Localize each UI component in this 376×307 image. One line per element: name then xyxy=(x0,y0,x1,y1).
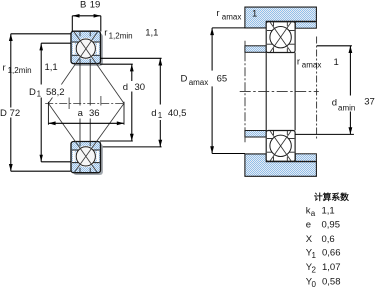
housing bottom xyxy=(245,154,317,176)
groove edge line x=90.2 top xyxy=(89,32,91,37)
centerline tick x=101 xyxy=(100,96,102,111)
shoulder face dash segment below bottom block xyxy=(244,137,246,142)
dimension a line xyxy=(48,122,124,124)
dimension D arrow top xyxy=(9,34,13,41)
groove white strip bottom box left xyxy=(73,150,75,162)
dimension damin leader bottom xyxy=(295,133,354,135)
svg-text:amin: amin xyxy=(338,104,355,113)
svg-text:1,1: 1,1 xyxy=(322,206,335,217)
svg-text:amax: amax xyxy=(302,61,322,70)
dimension D1 arrow top xyxy=(39,43,43,50)
damin projection dash line xyxy=(316,37,318,141)
centerline left drawing xyxy=(45,102,124,104)
ball top right xyxy=(270,27,291,48)
ball bottom xyxy=(76,147,95,166)
centerline tick x=69 xyxy=(68,98,70,110)
dimension Damax arrow top xyxy=(210,28,214,35)
svg-text:amax: amax xyxy=(189,78,209,87)
shoulder lines top right box xyxy=(267,30,294,32)
text halo D1 58,2 xyxy=(38,85,69,98)
svg-text:D: D xyxy=(29,87,36,98)
text halo d1 40,5 xyxy=(150,105,192,121)
labels left drawing xyxy=(0,0,186,120)
svg-text:d: d xyxy=(123,82,128,93)
raceway cavity halo top xyxy=(75,38,97,60)
bearing box bottom right xyxy=(266,131,295,162)
bearing box top right xyxy=(266,22,295,53)
svg-text:1: 1 xyxy=(312,251,317,260)
dimension d1 leader top xyxy=(100,57,162,59)
groove white strip top box right xyxy=(97,43,99,55)
groove edge long line x=90.2 xyxy=(89,59,91,146)
svg-text:d: d xyxy=(332,97,337,108)
svg-text:37: 37 xyxy=(364,97,375,108)
shaft shoulder top xyxy=(245,46,266,53)
text halo D 72 xyxy=(9,108,25,118)
X line 2 bottom right xyxy=(270,131,291,161)
svg-text:e: e xyxy=(306,219,311,230)
shoulder line top box upper xyxy=(72,41,100,43)
dimension D leader top xyxy=(11,33,71,35)
dimension d leader bottom xyxy=(100,140,133,142)
dimension B ext line left xyxy=(71,16,73,32)
dimension d1 arrow bottom xyxy=(158,140,162,147)
svg-text:0,58: 0,58 xyxy=(322,277,341,288)
svg-text:1,2min: 1,2min xyxy=(109,32,133,41)
dimension D1 arrow bottom xyxy=(40,155,43,162)
dimension B arrow left xyxy=(72,14,79,18)
dimension d1 line xyxy=(159,58,161,147)
svg-text:B: B xyxy=(80,0,86,11)
svg-text:D: D xyxy=(181,74,188,85)
dimension B line xyxy=(72,15,101,17)
svg-text:1,07: 1,07 xyxy=(322,262,341,273)
text halo d amin xyxy=(331,96,357,112)
svg-text:1: 1 xyxy=(334,57,339,68)
svg-text:计算系数: 计算系数 xyxy=(314,191,349,202)
dimension a ext line left xyxy=(47,102,49,125)
shoulder face dash segment above block xyxy=(244,41,246,46)
dimension damin line xyxy=(349,46,351,135)
dimension damin arrow bottom xyxy=(349,127,353,134)
svg-text:65: 65 xyxy=(217,74,228,85)
text halo D amax xyxy=(179,71,213,87)
shadow top box xyxy=(73,34,103,66)
dimension damin arrow top xyxy=(349,46,353,53)
svg-text:1,1: 1,1 xyxy=(45,62,58,73)
shaft shoulder bottom xyxy=(245,131,266,138)
svg-text:a: a xyxy=(78,108,84,119)
dimension Damax leader top xyxy=(212,27,245,29)
shoulder line top box lower xyxy=(72,54,100,56)
dimension D1 leader bottom xyxy=(41,161,70,163)
dimension d arrow bottom xyxy=(130,134,134,141)
centerline right drawing xyxy=(240,90,319,92)
contact line D xyxy=(74,103,124,172)
groove edge line x=80 top xyxy=(79,32,81,37)
text halo a 36 xyxy=(76,106,103,119)
dimension Damax leader bottom xyxy=(212,153,245,155)
svg-text:r: r xyxy=(104,28,107,39)
text halo d 30 xyxy=(122,81,148,92)
X line 1 bottom right xyxy=(270,131,291,161)
dimension a arrow right xyxy=(117,121,124,125)
dimension Damax arrow bottom xyxy=(210,146,214,153)
shaft face line right xyxy=(294,53,296,131)
dimension D1 line xyxy=(40,43,42,162)
housing top xyxy=(245,7,317,28)
svg-text:30: 30 xyxy=(135,82,146,93)
spacer top right xyxy=(295,22,316,28)
raceway cavity halo bottom xyxy=(75,146,97,168)
dimension B arrow right xyxy=(94,14,101,18)
svg-text:1,2min: 1,2min xyxy=(8,66,32,75)
svg-text:40,5: 40,5 xyxy=(168,108,187,119)
shoulder line bottom box upper xyxy=(72,149,100,151)
groove edge long line x=80 xyxy=(79,59,81,146)
svg-text:r: r xyxy=(297,56,300,67)
dimension d1 leader bottom xyxy=(103,146,162,148)
dimension D leader bottom xyxy=(11,170,71,172)
shoulder line bottom box lower xyxy=(72,162,100,164)
svg-text:amax: amax xyxy=(222,12,242,21)
labels right drawing xyxy=(181,8,375,113)
dimension d leader top xyxy=(100,63,133,65)
svg-text:2: 2 xyxy=(312,265,317,274)
shoulder face dash line xyxy=(244,52,246,130)
dimension D1 leader top xyxy=(41,42,70,44)
spacer bottom right xyxy=(295,154,316,162)
groove white strip bottom box right xyxy=(97,150,99,162)
contact line B xyxy=(48,103,97,172)
ball top xyxy=(76,39,95,58)
groove white strip top box left xyxy=(73,43,75,55)
svg-text:X: X xyxy=(306,234,313,245)
contact line C xyxy=(74,32,124,104)
dimension D arrow bottom xyxy=(9,164,13,171)
dimension damin leader top xyxy=(317,45,352,47)
dimension d line xyxy=(131,64,133,141)
outer+inner ring section top (box1) xyxy=(71,31,101,63)
dimension Damax line xyxy=(211,28,213,154)
shaft face line left xyxy=(265,53,267,131)
svg-text:1: 1 xyxy=(252,8,257,19)
svg-text:36: 36 xyxy=(89,108,100,119)
svg-text:0,95: 0,95 xyxy=(322,219,341,230)
svg-text:0,66: 0,66 xyxy=(322,248,341,259)
dimension d arrow top xyxy=(130,64,134,71)
svg-text:72: 72 xyxy=(10,108,21,119)
svg-text:1: 1 xyxy=(158,111,163,120)
groove edges top right box xyxy=(273,22,275,26)
dimension B ext line right xyxy=(100,16,102,32)
X line 2 top right xyxy=(270,22,291,52)
groove edge line x=80 bottom xyxy=(79,168,81,173)
svg-text:d: d xyxy=(151,108,156,119)
ring section bottom (box2) xyxy=(71,142,101,173)
groove edge line x=90.2 bottom xyxy=(89,168,91,173)
svg-text:1,1: 1,1 xyxy=(145,27,158,38)
groove edges bottom right box xyxy=(273,131,275,135)
dimension d1 arrow top xyxy=(158,58,162,65)
svg-text:r: r xyxy=(3,62,6,73)
dimension D line xyxy=(10,34,12,171)
svg-text:0,6: 0,6 xyxy=(322,234,335,245)
svg-text:19: 19 xyxy=(90,0,101,11)
dimension a ext line right xyxy=(123,102,125,125)
dimension a arrow left xyxy=(48,121,55,125)
ball bottom right xyxy=(270,135,291,156)
X line 1 top right xyxy=(270,22,291,52)
shadow bottom box xyxy=(73,144,103,175)
svg-text:r: r xyxy=(216,8,219,19)
svg-text:1: 1 xyxy=(37,89,42,98)
contact line A xyxy=(48,32,97,104)
svg-text:58,2: 58,2 xyxy=(46,87,65,98)
shoulder lines bottom right box xyxy=(267,138,294,140)
svg-text:a: a xyxy=(311,209,316,218)
svg-text:0: 0 xyxy=(312,280,317,289)
svg-text:D: D xyxy=(0,108,7,119)
